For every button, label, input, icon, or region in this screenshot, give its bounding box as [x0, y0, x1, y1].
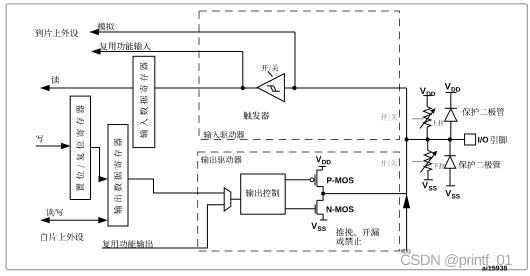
- label: VSS at lower diode: [445, 190, 460, 198]
- wire: output control to P-MOS gate: [285, 179, 310, 181]
- register box: bit set/reset register: [70, 96, 90, 199]
- resistor R2 pull-down: [427, 140, 429, 151]
- label: output data register text: [114, 138, 122, 214]
- node: analog junction: [292, 86, 296, 90]
- label: pull-up: [432, 120, 444, 126]
- power: VDD tick above P-MOS: [319, 165, 327, 167]
- label: on/off pull-up: [380, 114, 397, 122]
- arrowhead: analog: [89, 29, 99, 35]
- power: VSS tick below N-MOS: [320, 219, 327, 221]
- label: VDD at upper diode: [445, 83, 460, 91]
- label: ai15938: [482, 265, 507, 270]
- label: read: [51, 76, 59, 84]
- wire: mux to output control: [231, 198, 241, 200]
- label: VSS at N-MOS: [311, 223, 326, 231]
- label: read/write: [46, 209, 63, 217]
- wire: MOS output line: [323, 193, 407, 195]
- label: to on-chip peripherals: [35, 29, 78, 37]
- wire: I/O pin line: [407, 139, 465, 141]
- label: alternate function input: [100, 42, 151, 50]
- block: output control box: [241, 174, 286, 214]
- label: output driver: [201, 156, 242, 164]
- op-amp U1 TTL schmitt trigger: [257, 74, 284, 102]
- label: on/off at trigger: [261, 64, 278, 72]
- power: VSS tick below lower diode: [446, 185, 455, 187]
- label: input data register text: [140, 62, 148, 138]
- wire: pull-down switch stub: [412, 161, 424, 163]
- wire: output control to N-MOS gate: [285, 208, 315, 210]
- arrowhead: read/write right: [98, 217, 108, 223]
- label: output control: [246, 189, 280, 197]
- label: input driver: [204, 131, 245, 139]
- label: analog tiny bottom: [401, 249, 411, 254]
- label: pull-down: [433, 163, 445, 169]
- label: VDD at pull-up: [420, 88, 435, 96]
- wire: pull-up switch stub: [412, 118, 424, 120]
- arrowhead: analog output up-arrow: [403, 194, 410, 208]
- label: protection diode upper: [462, 108, 504, 116]
- label: trigger: [243, 112, 269, 120]
- node: pin-net junction: [405, 137, 409, 141]
- wire: alternate function output line: [102, 205, 224, 248]
- label: VSS at pull-down: [422, 182, 437, 190]
- wire: output data register to mux: [128, 179, 224, 193]
- watermark: CSDN @printf_01: [401, 254, 512, 268]
- diode D1 protection upper: [445, 107, 457, 109]
- label: pin (after I/O): [491, 136, 508, 144]
- label: from on-chip peripherals: [42, 233, 84, 241]
- transistor Q2 N-MOS: [314, 204, 316, 213]
- label: I/O: [478, 137, 488, 143]
- label: push-pull open-drain: [336, 228, 379, 236]
- arrowhead: read: [40, 85, 50, 91]
- wire: write line: [36, 145, 63, 147]
- label: analog: [97, 23, 114, 31]
- label: or disabled: [336, 237, 362, 245]
- label: VDD at P-MOS: [316, 156, 331, 164]
- node: MOS drain junction: [321, 192, 325, 196]
- label: on/off pull-down: [380, 159, 397, 167]
- power: VDD tick above upper diode: [446, 92, 457, 94]
- output driver dashed box: [198, 152, 400, 251]
- wire: read line / pad net: [46, 87, 407, 89]
- diode D2 protection lower: [449, 140, 451, 156]
- register box: input data register: [133, 56, 155, 147]
- resistor R1 pull-up: [424, 107, 431, 140]
- label: bit set/reset register text: [76, 105, 85, 191]
- arrowhead: alternate function input: [91, 48, 101, 54]
- label: N-MOS: [327, 206, 354, 212]
- label: protection diode lower: [459, 161, 501, 169]
- transistor Q1 P-MOS: [310, 178, 314, 182]
- wire: read/write line: [47, 219, 100, 221]
- register box: output data register: [108, 125, 128, 227]
- mux: output selector: [224, 188, 231, 211]
- node: pullup-column junction: [426, 137, 430, 141]
- power: VSS tick below pull-down: [424, 179, 433, 181]
- label: write: [36, 135, 43, 142]
- node: diode-column junction: [448, 137, 452, 141]
- power: VDD tick above pull-up: [423, 95, 431, 97]
- arrowhead: read/write left: [40, 217, 50, 223]
- label: alternate function output: [102, 240, 152, 248]
- label: P-MOS: [327, 177, 354, 183]
- wire: pad vertical net: [406, 88, 408, 250]
- wire: alternate function input line: [97, 51, 243, 53]
- input driver dashed box: [199, 11, 400, 140]
- pad: I/O pin square: [465, 134, 476, 145]
- wire: analog line to on-chip peripherals: [95, 31, 295, 33]
- wire: trigger leader line: [268, 72, 273, 77]
- wire: set/reset to output data register: [91, 148, 101, 180]
- node: AF-input junction: [241, 86, 245, 90]
